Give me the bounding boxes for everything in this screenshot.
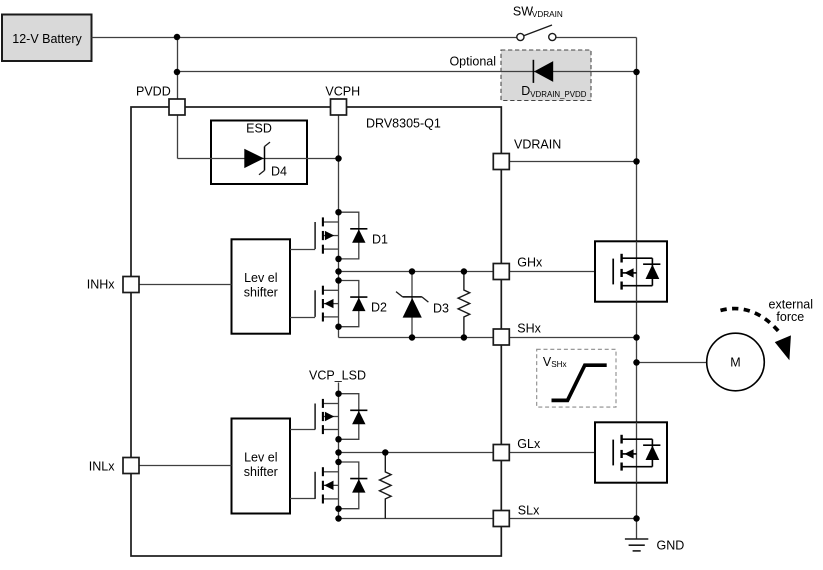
junction D3 top	[409, 268, 416, 275]
ground	[625, 519, 648, 551]
svg-text:DRV8305-Q1: DRV8305-Q1	[366, 116, 441, 130]
junction M1 source	[335, 256, 342, 263]
junction M3 source	[335, 436, 342, 443]
svg-text:INHx: INHx	[87, 278, 116, 292]
external MOSFET low-side	[595, 422, 667, 482]
svg-text:M: M	[730, 355, 740, 369]
svg-text:force: force	[776, 310, 804, 324]
junction R top	[461, 268, 468, 275]
svg-text:SHx: SHx	[551, 360, 566, 369]
wire SLx row	[339, 518, 637, 520]
V_SHx waveform box	[537, 349, 616, 407]
junction bus/SHx	[633, 334, 640, 341]
resistor gate-source (high side)	[458, 272, 470, 338]
transistor M2 (high-side sink driver)	[315, 286, 338, 322]
svg-text:SLx: SLx	[518, 504, 540, 518]
junction bus/motor	[633, 359, 640, 366]
wire ESD / D4 row	[178, 158, 339, 160]
svg-text:D1: D1	[372, 232, 388, 246]
pin PVDD	[169, 99, 185, 115]
svg-text:D4: D4	[271, 164, 287, 178]
svg-text:GHx: GHx	[517, 255, 543, 269]
wire INHx input	[131, 284, 232, 286]
level shifter (high side)	[232, 239, 291, 333]
diode D4b	[339, 462, 368, 509]
wire PVDD vertical	[177, 38, 179, 159]
junction M4 source	[335, 505, 342, 512]
svg-text:VDRAIN: VDRAIN	[514, 138, 561, 152]
svg-text:SHx: SHx	[517, 321, 541, 335]
junction VCPH/D4	[335, 155, 342, 162]
wire SHx row	[339, 337, 637, 339]
wire INLx input	[131, 465, 232, 467]
wire optional-diode row	[178, 71, 637, 73]
IC U1 DRV8305-Q1 chip outline	[131, 107, 501, 556]
diode D_VDRAIN_PVDD	[533, 60, 553, 83]
svg-text:D: D	[521, 84, 530, 98]
optional diode box	[501, 50, 591, 101]
diode D1	[339, 212, 368, 259]
svg-text:ESD: ESD	[246, 121, 272, 135]
switch SW_VDRAIN	[517, 25, 556, 41]
svg-text:D3: D3	[433, 302, 449, 316]
svg-text:VDRAIN: VDRAIN	[532, 10, 563, 19]
resistor gate-source (low side)	[379, 453, 391, 519]
junction battery/top	[174, 34, 181, 41]
svg-text:D2: D2	[371, 301, 387, 315]
pin SHx	[493, 329, 509, 345]
junction GHx tap	[335, 268, 342, 275]
pin GHx	[493, 264, 509, 280]
transistor M1 (high-side source driver)	[315, 217, 338, 253]
wire gate lead M4	[290, 498, 315, 500]
svg-text:VDRAIN_PVDD: VDRAIN_PVDD	[530, 90, 586, 99]
junction R bottom	[461, 334, 468, 341]
wire right bus	[636, 38, 638, 519]
junction bus/GND	[633, 515, 640, 522]
pin VCPH	[331, 99, 347, 115]
svg-text:12-V Battery: 12-V Battery	[12, 32, 82, 46]
diode D3b	[339, 394, 368, 440]
ESD box	[211, 121, 307, 185]
pin SLx	[493, 511, 509, 527]
wire GLx row	[339, 452, 614, 454]
pin INLx	[123, 458, 139, 474]
junction M1 drain	[335, 209, 342, 216]
transistor M4 (low-side sink driver)	[315, 467, 338, 503]
svg-text:Lev el: Lev el	[244, 271, 277, 285]
battery	[2, 15, 92, 62]
wire GHx row	[339, 271, 614, 273]
motor M	[707, 333, 765, 391]
pin VDRAIN	[493, 154, 509, 170]
wire battery to switch	[92, 37, 517, 39]
junction GLx tap	[335, 449, 342, 456]
junction R2 top	[382, 449, 389, 456]
wire VCP_LSD vertical (low-side half bridge)	[338, 383, 340, 519]
zener diode D3	[396, 272, 428, 338]
junction VCP_LSD	[335, 390, 342, 397]
junction PVDD/opt row	[174, 69, 181, 76]
wire switch to right bus	[556, 37, 637, 39]
transistor M3 (low-side source driver)	[315, 399, 338, 434]
wire gate lead M1	[290, 249, 315, 251]
junction bus/VDRAIN	[633, 158, 640, 165]
svg-text:INLx: INLx	[89, 460, 115, 474]
svg-text:PVDD: PVDD	[136, 85, 171, 99]
diode D2	[339, 281, 368, 327]
wire VDRAIN to bus	[501, 161, 636, 163]
external MOSFET high-side	[595, 241, 667, 301]
svg-text:shifter: shifter	[244, 465, 278, 479]
junction bus/opt diode	[633, 69, 640, 76]
svg-text:Optional: Optional	[449, 54, 496, 68]
level shifter (low side)	[232, 419, 291, 514]
junction M2 source	[335, 323, 342, 330]
svg-text:GND: GND	[657, 538, 685, 552]
junction D3 bottom	[409, 334, 416, 341]
svg-text:GLx: GLx	[517, 437, 541, 451]
svg-text:VCPH: VCPH	[325, 85, 360, 99]
wire motor tap	[637, 362, 707, 364]
pin INHx	[123, 277, 139, 293]
wire gate lead M2	[290, 317, 315, 319]
junction M4 drain	[335, 459, 342, 466]
wire gate lead M3	[290, 429, 315, 431]
wire VCPH vertical (high-side half bridge)	[338, 115, 340, 338]
svg-text:Lev el: Lev el	[244, 451, 277, 465]
external force arrow	[721, 309, 791, 361]
svg-text:shifter: shifter	[244, 286, 278, 300]
svg-text:SW: SW	[513, 4, 533, 18]
junction SLx left	[335, 515, 342, 522]
pin GLx	[493, 445, 509, 461]
junction M2 drain	[335, 277, 342, 284]
svg-text:VCP_LSD: VCP_LSD	[309, 368, 366, 382]
zener diode D4	[244, 142, 270, 175]
